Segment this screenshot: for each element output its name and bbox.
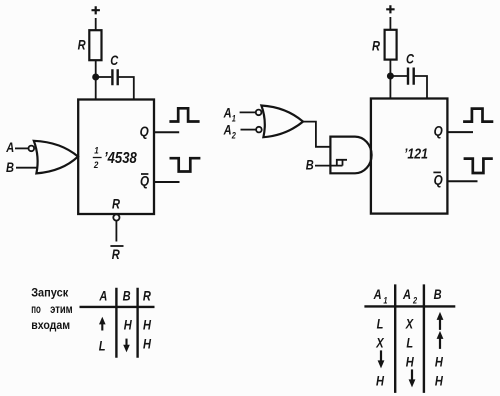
svg-text:Запуск: Запуск [31, 286, 69, 300]
svg-text:H: H [143, 317, 152, 332]
svg-text:B: B [434, 287, 442, 302]
OR gate (trigger input gate) [34, 141, 78, 174]
svg-text:2: 2 [412, 296, 417, 306]
svg-text:R: R [112, 196, 120, 211]
wire + to resistor R [95, 18, 97, 30]
wire input A1 [240, 111, 256, 113]
left table vertical line 1 [115, 288, 117, 358]
wire output Qbar (right) [447, 180, 477, 182]
svg-text:B: B [123, 288, 131, 303]
svg-text:H: H [143, 337, 152, 352]
svg-text:1: 1 [94, 145, 99, 156]
svg-text:Q: Q [434, 172, 443, 188]
capacitor C [112, 69, 117, 85]
wire output Q [154, 131, 179, 133]
svg-text:A: A [402, 287, 411, 302]
row1 arrow up (A) [101, 322, 103, 331]
svg-text:A: A [223, 123, 232, 138]
wire reset [115, 221, 117, 242]
wire OR output to AND gate [302, 122, 330, 147]
right table vertical line 1 [394, 284, 396, 393]
junction node (right) [387, 73, 394, 80]
wire resistor to box [389, 60, 391, 99]
svg-text:R: R [78, 38, 86, 53]
svg-text:этим: этим [50, 302, 73, 316]
svg-text:Q: Q [140, 123, 149, 139]
svg-text:B: B [6, 160, 14, 175]
waveform negative pulse at Qbar [170, 158, 201, 171]
AND gate with schmitt input [330, 137, 371, 174]
left table horizontal line [80, 306, 155, 308]
row2 arrow down (B) [125, 339, 127, 348]
waveform negative pulse (right Qbar) [464, 159, 493, 173]
svg-text:A: A [373, 287, 382, 302]
right table horizontal line [364, 305, 455, 307]
wire output Qbar [154, 181, 180, 183]
capacitor C (right) [408, 68, 414, 85]
svg-text:R: R [143, 288, 151, 303]
svg-text:2: 2 [231, 131, 236, 141]
wire input B [315, 165, 343, 167]
svg-text:C: C [406, 52, 415, 67]
r3 arrow down (A1) [380, 350, 382, 360]
svg-text:X: X [375, 336, 384, 351]
power + terminal [92, 6, 100, 14]
wire input A2 [241, 129, 257, 131]
inverting bubble A2 [256, 127, 262, 133]
left table vertical line 2 [136, 288, 138, 358]
reset inverting bubble [113, 214, 119, 220]
svg-text:2: 2 [93, 159, 98, 170]
wire capacitor to box (right) [414, 76, 427, 99]
svg-text:A: A [5, 140, 14, 155]
svg-text:Q: Q [434, 122, 443, 138]
svg-text:R: R [112, 247, 120, 262]
OR gate (right trigger gate) [261, 106, 303, 138]
svg-text:H: H [435, 374, 444, 389]
resistor R (right) [385, 30, 397, 60]
svg-text:L: L [99, 339, 106, 354]
svg-text:B: B [306, 157, 314, 172]
svg-text:R: R [372, 39, 380, 54]
inverting bubble A1 [256, 110, 262, 116]
svg-text:H: H [376, 374, 385, 389]
svg-text:H: H [406, 355, 415, 370]
svg-text:L: L [406, 336, 413, 351]
r2 arrow up (B) [439, 339, 441, 349]
r4 arrow down (A2) [411, 369, 413, 379]
svg-text:H: H [435, 355, 444, 370]
wire junction to capacitor (right) [390, 75, 407, 77]
svg-text:X: X [405, 316, 414, 331]
waveform positive pulse at Q [169, 108, 199, 121]
svg-text:H: H [124, 317, 133, 332]
junction node [92, 74, 99, 81]
wire input B [16, 167, 38, 169]
resistor R [89, 30, 101, 60]
svg-text:A: A [223, 105, 232, 120]
svg-text:1: 1 [232, 114, 236, 124]
svg-text:L: L [377, 316, 384, 331]
wire input A [15, 147, 28, 149]
IC U2 box ('121) [371, 99, 448, 214]
wire + to resistor [389, 17, 391, 30]
hysteresis symbol [337, 160, 347, 166]
svg-text:Q: Q [140, 173, 149, 189]
wire resistor to box top [95, 60, 97, 99]
svg-text:A: A [99, 288, 108, 303]
svg-text:по: по [31, 302, 41, 316]
svg-text:C: C [110, 53, 119, 68]
power + terminal (right) [386, 5, 394, 13]
inverting bubble input A [29, 146, 35, 152]
svg-text:’121: ’121 [404, 145, 428, 161]
wire capacitor to box top [118, 77, 134, 100]
wire output Q (right) [447, 131, 473, 133]
svg-text:входам: входам [31, 318, 70, 332]
svg-text:’4538: ’4538 [104, 150, 138, 167]
svg-text:1: 1 [383, 296, 387, 306]
waveform positive pulse (right Q) [463, 109, 493, 122]
right table vertical line 2 [423, 284, 425, 393]
wire junction to capacitor [96, 76, 112, 78]
r1 arrow up (B) [439, 320, 441, 330]
IC U1 box (1/2 '4538) [78, 100, 154, 215]
